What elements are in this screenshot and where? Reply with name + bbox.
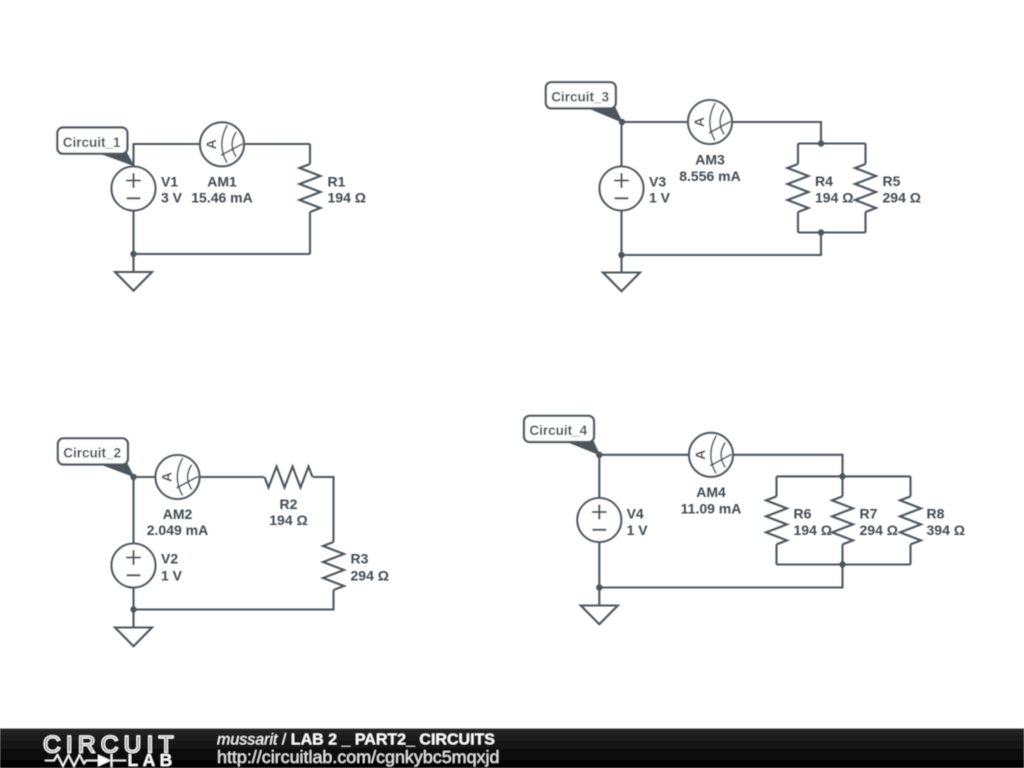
R8 leads — [909, 476, 911, 564]
node dot C4 top-left — [596, 452, 602, 458]
svg-text:R8: R8 — [927, 506, 945, 522]
svg-text:294 Ω: 294 Ω — [351, 568, 389, 584]
svg-text:AM4: AM4 — [696, 484, 726, 500]
ammeter AM1 — [200, 122, 244, 166]
voltage source V4 — [577, 498, 621, 542]
wire R2 right lead and corner — [313, 477, 334, 542]
svg-text:A: A — [691, 117, 707, 127]
node dot C1 bottom — [130, 251, 136, 257]
svg-text:R2: R2 — [280, 496, 298, 512]
svg-text:R7: R7 — [860, 506, 878, 522]
svg-text:R6: R6 — [794, 506, 812, 522]
ammeter AM4 — [689, 433, 733, 477]
svg-text:1 V: 1 V — [649, 190, 671, 206]
resistor R8 — [900, 496, 921, 544]
node dot C4 bracket top — [839, 473, 845, 479]
flag Circuit_3 — [587, 107, 622, 122]
bracket top C3 — [798, 142, 866, 144]
svg-text:mussarit / LAB 2 _ PART2_ CIRC: mussarit / LAB 2 _ PART2_ CIRCUITS — [217, 732, 495, 749]
bracket bottom C4 — [599, 542, 910, 606]
voltage source V3 — [600, 167, 644, 211]
svg-text:A: A — [692, 450, 708, 460]
ground C3 — [603, 273, 640, 292]
node dot C2 top — [130, 474, 136, 480]
svg-text:Circuit_2: Circuit_2 — [63, 446, 121, 461]
svg-text:V1: V1 — [161, 174, 178, 190]
svg-text:V2: V2 — [161, 551, 178, 567]
node dot C3 bracket top — [818, 140, 824, 146]
ammeter AM2 — [156, 455, 200, 499]
resistor R6 — [766, 496, 787, 544]
bracket top C4 — [777, 475, 911, 477]
ground C4 — [581, 606, 618, 625]
svg-text:294 Ω: 294 Ω — [860, 522, 898, 538]
resistor R2 — [265, 467, 313, 488]
svg-text:394 Ω: 394 Ω — [927, 522, 965, 538]
voltage source V1 — [112, 167, 156, 211]
node dot C3 bottom-left — [618, 252, 624, 258]
wire top C4 — [599, 455, 842, 498]
flag Circuit_2 — [99, 463, 134, 476]
R5 leads — [864, 144, 866, 233]
svg-text:194 Ω: 194 Ω — [269, 512, 307, 528]
svg-text:R1: R1 — [328, 174, 346, 190]
svg-text:2.049 mA: 2.049 mA — [147, 522, 208, 538]
svg-text:194 Ω: 194 Ω — [328, 190, 366, 206]
voltage source V2 — [112, 544, 156, 588]
svg-text:R3: R3 — [351, 551, 369, 567]
svg-text:AM2: AM2 — [163, 506, 193, 522]
svg-text:http://circuitlab.com/cgnkybc5: http://circuitlab.com/cgnkybc5mqxjd — [217, 747, 499, 767]
wire R3 bottom lead — [134, 588, 334, 628]
wire R1 leads — [309, 144, 311, 254]
node dot C4 bracket bottom — [839, 561, 845, 567]
svg-text:11.09 mA: 11.09 mA — [681, 500, 742, 516]
svg-text:Circuit_3: Circuit_3 — [551, 90, 609, 105]
wire top C2 — [134, 477, 265, 544]
node dot C4 bottom-left — [596, 584, 602, 590]
svg-text:15.46 mA: 15.46 mA — [191, 189, 252, 205]
flag Circuit_1 — [98, 153, 133, 166]
svg-text:V3: V3 — [649, 174, 666, 190]
svg-text:V4: V4 — [627, 506, 644, 522]
svg-text:AM1: AM1 — [207, 173, 237, 189]
wire top C1 — [134, 144, 311, 167]
bracket bottom C3 — [622, 211, 866, 273]
resistor R3 — [323, 542, 344, 590]
node dot C3 top-left — [619, 119, 625, 125]
svg-text:8.556 mA: 8.556 mA — [679, 168, 740, 184]
svg-text:1 V: 1 V — [627, 522, 649, 538]
svg-text:194 Ω: 194 Ω — [794, 522, 832, 538]
svg-text:194 Ω: 194 Ω — [815, 190, 853, 206]
resistor R7 — [832, 496, 853, 544]
wire bottom C1 — [134, 211, 311, 273]
resistor R1 — [300, 164, 321, 212]
ground C2 — [115, 628, 152, 647]
svg-text:R5: R5 — [883, 173, 901, 189]
svg-text:AM3: AM3 — [695, 152, 725, 168]
svg-text:R4: R4 — [815, 173, 833, 189]
svg-text:1 V: 1 V — [161, 568, 183, 584]
node dot C2 bottom — [130, 606, 136, 612]
svg-text:Circuit_1: Circuit_1 — [63, 135, 121, 150]
flag Circuit_4 — [565, 441, 599, 455]
svg-text:Circuit_4: Circuit_4 — [529, 423, 587, 438]
R4 leads — [797, 144, 799, 233]
R6 leads — [775, 476, 777, 564]
svg-text:A: A — [159, 472, 175, 482]
resistor R4 — [788, 164, 809, 212]
ammeter AM3 — [688, 100, 732, 144]
logo resistor zigzag wire — [45, 755, 126, 766]
svg-text:3 V: 3 V — [161, 190, 183, 206]
svg-text:294 Ω: 294 Ω — [883, 190, 921, 206]
svg-text:A: A — [203, 139, 219, 149]
logo diode — [98, 755, 111, 767]
resistor R5 — [855, 164, 876, 212]
node dot C3 bracket bottom — [818, 229, 824, 235]
R7 leads — [841, 476, 843, 564]
wire top C3 — [622, 122, 822, 167]
svg-text:LAB: LAB — [128, 750, 177, 768]
ground C1 — [115, 272, 152, 291]
